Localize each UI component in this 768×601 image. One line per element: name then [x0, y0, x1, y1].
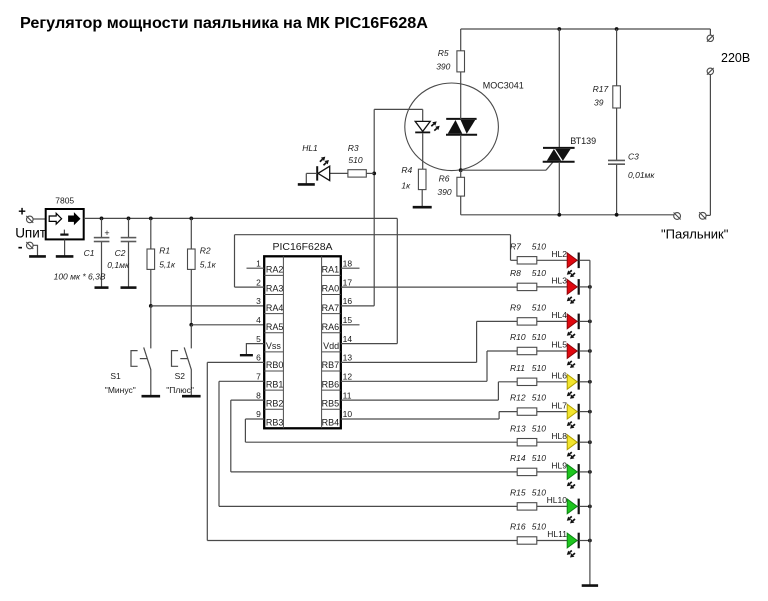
terminal - input: [27, 242, 34, 249]
svg-text:HL3: HL3: [551, 276, 567, 286]
node bus HL11: [588, 539, 592, 543]
wire pin1 RA2 stub: [247, 267, 265, 269]
resistor R16: [517, 537, 537, 544]
LED HL7: [567, 404, 577, 419]
svg-text:RA3: RA3: [266, 284, 284, 294]
capacitor C1 leads: [101, 218, 103, 237]
triac VS1 BT139: [558, 29, 560, 147]
node bottom-C3: [615, 213, 619, 217]
wire pin15 RA6 stub: [341, 324, 360, 326]
svg-text:RA5: RA5: [266, 322, 284, 332]
svg-text:RB2: RB2: [266, 398, 284, 408]
7805 output arrow (filled): [69, 213, 80, 224]
wire RA3 loop top: [235, 234, 511, 236]
resistor R8: [517, 283, 537, 290]
svg-text:5,1к: 5,1к: [200, 260, 217, 270]
svg-text:Vdd: Vdd: [323, 341, 339, 351]
wire HL3 to bus: [579, 286, 590, 288]
svg-text:HL8: HL8: [551, 431, 567, 441]
HL1 emission arrows: [320, 159, 323, 162]
wire pin18 RA1 stub: [341, 267, 360, 269]
resistor R15: [517, 503, 537, 510]
svg-text:1к: 1к: [401, 180, 411, 190]
svg-text:S1: S1: [110, 371, 121, 381]
svg-text:510: 510: [532, 453, 546, 463]
svg-text:R14: R14: [510, 453, 526, 463]
svg-text:MOC3041: MOC3041: [483, 81, 524, 91]
svg-text:15: 15: [343, 315, 353, 325]
svg-text:8: 8: [256, 390, 261, 400]
wire pin13 RB7 to R9: [341, 361, 477, 363]
wire pin9 RB3 to R13: [245, 418, 264, 420]
svg-text:17: 17: [343, 277, 353, 287]
LED HL9: [567, 465, 577, 480]
ground C1: [95, 286, 109, 289]
svg-text:R3: R3: [348, 143, 359, 153]
wire pin7 RB1 to R15: [219, 380, 264, 382]
ground HL1: [298, 183, 315, 186]
wire gate to BT139: [461, 169, 546, 171]
terminal iron right: [699, 212, 706, 219]
wire R14 to HL9: [537, 471, 567, 473]
resistor R11: [517, 378, 537, 385]
svg-text:4: 4: [256, 315, 261, 325]
wire HL4 to bus: [579, 320, 590, 322]
wire HL11 to bus: [579, 540, 590, 542]
svg-text:RB7: RB7: [322, 360, 340, 370]
node RA7-R3: [372, 172, 376, 176]
wire pin2 RA3 stub: [235, 286, 265, 288]
svg-text:RB4: RB4: [322, 418, 340, 428]
ground S1: [142, 395, 161, 398]
wire HL9 to bus: [579, 471, 590, 473]
terminal iron left: [674, 213, 681, 220]
resistor R7: [517, 257, 537, 264]
svg-text:R12: R12: [510, 393, 526, 403]
node bottom-BT139: [557, 213, 561, 217]
wire HL1 cathode to ground: [306, 172, 317, 174]
svg-text:9: 9: [256, 409, 261, 419]
svg-text:HL5: HL5: [551, 340, 567, 350]
svg-text:C2: C2: [115, 248, 126, 258]
node MOC-gate: [459, 168, 463, 172]
wire HL5 to bus: [579, 350, 590, 352]
svg-text:39: 39: [594, 97, 604, 107]
node rail-R17: [615, 27, 619, 31]
wire pin10 RB4 to R12: [341, 418, 499, 420]
wire 220V top rail: [461, 28, 711, 30]
svg-text:6: 6: [256, 353, 261, 363]
7805 input arrow (open): [49, 213, 61, 224]
wire HL10 to bus: [579, 505, 590, 507]
svg-text:11: 11: [343, 390, 352, 400]
svg-text:PIC16F628A: PIC16F628A: [272, 241, 332, 253]
capacitor C3: [608, 159, 625, 161]
svg-text:Vss: Vss: [266, 341, 282, 351]
wire HL8 to bus: [579, 441, 590, 443]
svg-text:13: 13: [343, 353, 353, 363]
svg-text:100 мк * 6,3В: 100 мк * 6,3В: [54, 272, 106, 282]
LED HL3: [567, 280, 577, 295]
svg-text:R2: R2: [200, 246, 211, 256]
node rail-R1: [149, 217, 153, 221]
LED HL2: [567, 253, 577, 268]
svg-text:HL4: HL4: [551, 310, 567, 320]
svg-text:+: +: [104, 228, 109, 238]
resistor R3: [348, 170, 366, 177]
switch S2: [184, 347, 191, 369]
optocoupler MOC3041 circle: [405, 83, 499, 171]
svg-text:"Минус": "Минус": [105, 385, 136, 395]
node bus HL3: [588, 285, 592, 289]
svg-text:3: 3: [256, 296, 261, 306]
svg-text:R17: R17: [593, 84, 609, 94]
svg-text:HL7: HL7: [551, 400, 567, 410]
svg-text:-: -: [18, 239, 23, 255]
svg-text:0,1мк: 0,1мк: [107, 260, 130, 270]
svg-text:2: 2: [256, 277, 261, 287]
LED HL5: [567, 344, 577, 359]
wire R15 to HL10: [537, 505, 567, 507]
MOC internal triac: [446, 118, 476, 120]
LED HL4: [567, 314, 577, 329]
wire RA3 loop down to R7: [510, 235, 512, 261]
svg-text:RB5: RB5: [322, 398, 340, 408]
wire R13 to HL8: [537, 441, 567, 443]
svg-text:510: 510: [532, 488, 546, 498]
svg-text:ВТ139: ВТ139: [570, 136, 596, 146]
svg-text:7: 7: [256, 372, 261, 382]
svg-text:7805: 7805: [55, 195, 74, 205]
svg-text:R1: R1: [159, 246, 170, 256]
wire R16 to HL11: [537, 540, 567, 542]
svg-text:R15: R15: [510, 488, 526, 498]
wire HL7 to bus: [579, 411, 590, 413]
svg-text:RB6: RB6: [322, 379, 340, 389]
svg-text:RA0: RA0: [322, 284, 340, 294]
svg-text:S2: S2: [175, 371, 186, 381]
svg-text:RA4: RA4: [266, 303, 284, 313]
7805 internal ground pin: [63, 230, 65, 235]
svg-text:390: 390: [436, 62, 450, 72]
LED HL1: [318, 166, 330, 180]
node bus HL5: [588, 349, 592, 353]
wire HL2 to bus: [579, 259, 590, 261]
svg-text:R8: R8: [510, 268, 521, 278]
node rail-R2: [189, 217, 193, 221]
resistor R10: [517, 347, 537, 354]
wire pin17 RA0 to R8: [341, 286, 517, 288]
ground at - input: [29, 255, 46, 258]
resistor R4: [421, 168, 423, 170]
svg-text:510: 510: [532, 268, 546, 278]
svg-text:510: 510: [532, 393, 546, 403]
wire R2 to pin4: [191, 324, 264, 326]
wire R11 to HL6: [537, 381, 567, 383]
svg-text:510: 510: [348, 155, 362, 165]
svg-text:510: 510: [532, 303, 546, 313]
svg-text:C1: C1: [84, 248, 95, 258]
resistor R2: [190, 218, 192, 249]
svg-text:510: 510: [532, 363, 546, 373]
svg-text:0,01мк: 0,01мк: [628, 170, 655, 180]
U1 pin box grid: [282, 256, 284, 428]
svg-text:10: 10: [343, 409, 353, 419]
svg-text:HL2: HL2: [551, 249, 567, 259]
wire R1 down to S1: [150, 306, 152, 349]
svg-text:R6: R6: [439, 173, 450, 183]
svg-text:HL9: HL9: [551, 461, 567, 471]
svg-text:"Плюс": "Плюс": [166, 385, 194, 395]
resistor R14: [517, 468, 537, 475]
node rail-C1: [100, 217, 104, 221]
resistor R1: [150, 218, 152, 249]
node bus HL4: [588, 320, 592, 324]
wire R3 to node: [366, 172, 374, 174]
wire +5V rail: [84, 217, 398, 219]
svg-text:R4: R4: [401, 165, 412, 175]
ground cathode bus: [582, 584, 598, 587]
node R1-S1-RA4: [149, 304, 153, 308]
svg-text:5,1к: 5,1к: [159, 260, 176, 270]
capacitor C1 plates: [94, 237, 110, 239]
wire R8 to HL3: [537, 286, 567, 288]
capacitor C2 plates: [121, 237, 137, 239]
wire R10 to HL5: [537, 350, 567, 352]
ground C2: [121, 286, 137, 289]
node bus HL10: [588, 505, 592, 509]
svg-text:R16: R16: [510, 522, 526, 532]
voltage regulator U2 7805 body: [46, 209, 84, 239]
svg-text:R10: R10: [510, 332, 526, 342]
svg-text:220В: 220В: [721, 51, 750, 65]
svg-text:510: 510: [532, 241, 546, 251]
7805 ground lead: [64, 240, 66, 257]
resistor R12: [517, 408, 537, 415]
ground S2: [182, 395, 201, 398]
wire HL6 to bus: [579, 381, 590, 383]
resistor R6: [460, 170, 462, 177]
node rail-BT139: [557, 27, 561, 31]
svg-text:RA1: RA1: [322, 265, 340, 275]
wire - terminal: [33, 245, 37, 256]
svg-text:510: 510: [532, 522, 546, 532]
svg-text:C3: C3: [628, 151, 639, 161]
wire R1 to pin3: [151, 305, 264, 307]
svg-text:16: 16: [343, 296, 353, 306]
svg-text:14: 14: [343, 334, 353, 344]
resistor R9: [517, 318, 537, 325]
svg-text:18: 18: [343, 258, 353, 268]
wire loop to R7: [511, 259, 518, 261]
svg-text:1: 1: [256, 258, 261, 268]
wire R9 to HL4: [537, 320, 567, 322]
wire rail to terminal: [709, 29, 711, 35]
svg-text:HL10: HL10: [547, 495, 568, 505]
svg-text:"Паяльник": "Паяльник": [661, 226, 729, 241]
terminal 220V lower: [707, 68, 713, 74]
wire R12 to HL7: [537, 411, 567, 413]
resistor R17: [616, 29, 618, 86]
node rail-C2: [127, 217, 131, 221]
terminal + input Uпит: [27, 216, 34, 223]
node bus HL9: [588, 470, 592, 474]
capacitor C2 leads: [128, 218, 130, 237]
svg-text:R7: R7: [510, 241, 521, 251]
svg-text:5: 5: [256, 334, 261, 344]
wire R3 to HL1: [330, 172, 348, 174]
LED HL10: [567, 499, 577, 514]
node bus HL7: [588, 410, 592, 414]
wire + terminal to 7805: [33, 218, 46, 220]
svg-text:RB1: RB1: [266, 379, 284, 389]
wire R2 down to S2: [190, 325, 192, 349]
svg-text:R9: R9: [510, 303, 521, 313]
svg-text:HL1: HL1: [302, 143, 318, 153]
resistor R5: [460, 29, 462, 51]
svg-text:HL6: HL6: [551, 371, 567, 381]
wire pin12 RB6 to R10: [341, 380, 487, 382]
wire bottom rail: [461, 214, 674, 216]
svg-text:R11: R11: [510, 363, 525, 373]
LED HL11: [567, 533, 577, 548]
wire RA3 loop up: [234, 235, 236, 287]
wire pin5 Vss stub: [246, 344, 264, 355]
svg-text:R5: R5: [438, 48, 449, 58]
wire pin6 RB0 to R16: [207, 361, 264, 363]
svg-text:RB0: RB0: [266, 360, 284, 370]
wire 220V lower down: [709, 75, 711, 216]
svg-text:+: +: [18, 204, 26, 219]
svg-text:510: 510: [532, 332, 546, 342]
ground Vss: [240, 354, 253, 356]
ground R4: [413, 206, 432, 209]
wire pin16 RA7 to optocoupler: [341, 305, 374, 307]
svg-text:390: 390: [437, 187, 451, 197]
MOC internal LED: [422, 109, 424, 121]
wire pin14 Vdd: [341, 343, 398, 345]
node bus HL8: [588, 440, 592, 444]
node bus HL6: [588, 380, 592, 384]
svg-text:RA2: RA2: [266, 265, 284, 275]
svg-text:RA7: RA7: [322, 303, 340, 313]
svg-text:RB3: RB3: [266, 418, 284, 428]
wire pin8 RB2 to R14: [231, 399, 264, 401]
IC U1 PIC16F628A body: [264, 256, 341, 428]
wire cathode bus: [589, 260, 591, 585]
svg-text:HL11: HL11: [547, 529, 567, 539]
svg-text:Регулятор мощности паяльника н: Регулятор мощности паяльника на МК PIC16…: [20, 15, 428, 32]
wire pin11 RB5 to R11: [341, 399, 499, 401]
MOC LED emission arrows: [431, 124, 434, 126]
terminal 220V upper: [707, 35, 713, 41]
svg-text:R13: R13: [510, 423, 526, 433]
svg-text:510: 510: [532, 423, 546, 433]
LED HL6: [567, 374, 577, 389]
LED HL8: [567, 435, 577, 450]
resistor R13: [517, 439, 537, 446]
switch S1: [144, 347, 151, 369]
svg-text:RA6: RA6: [322, 322, 340, 332]
node R2-S2-RA5: [189, 323, 193, 327]
wire R7 to HL2: [537, 259, 567, 261]
svg-text:12: 12: [343, 372, 353, 382]
